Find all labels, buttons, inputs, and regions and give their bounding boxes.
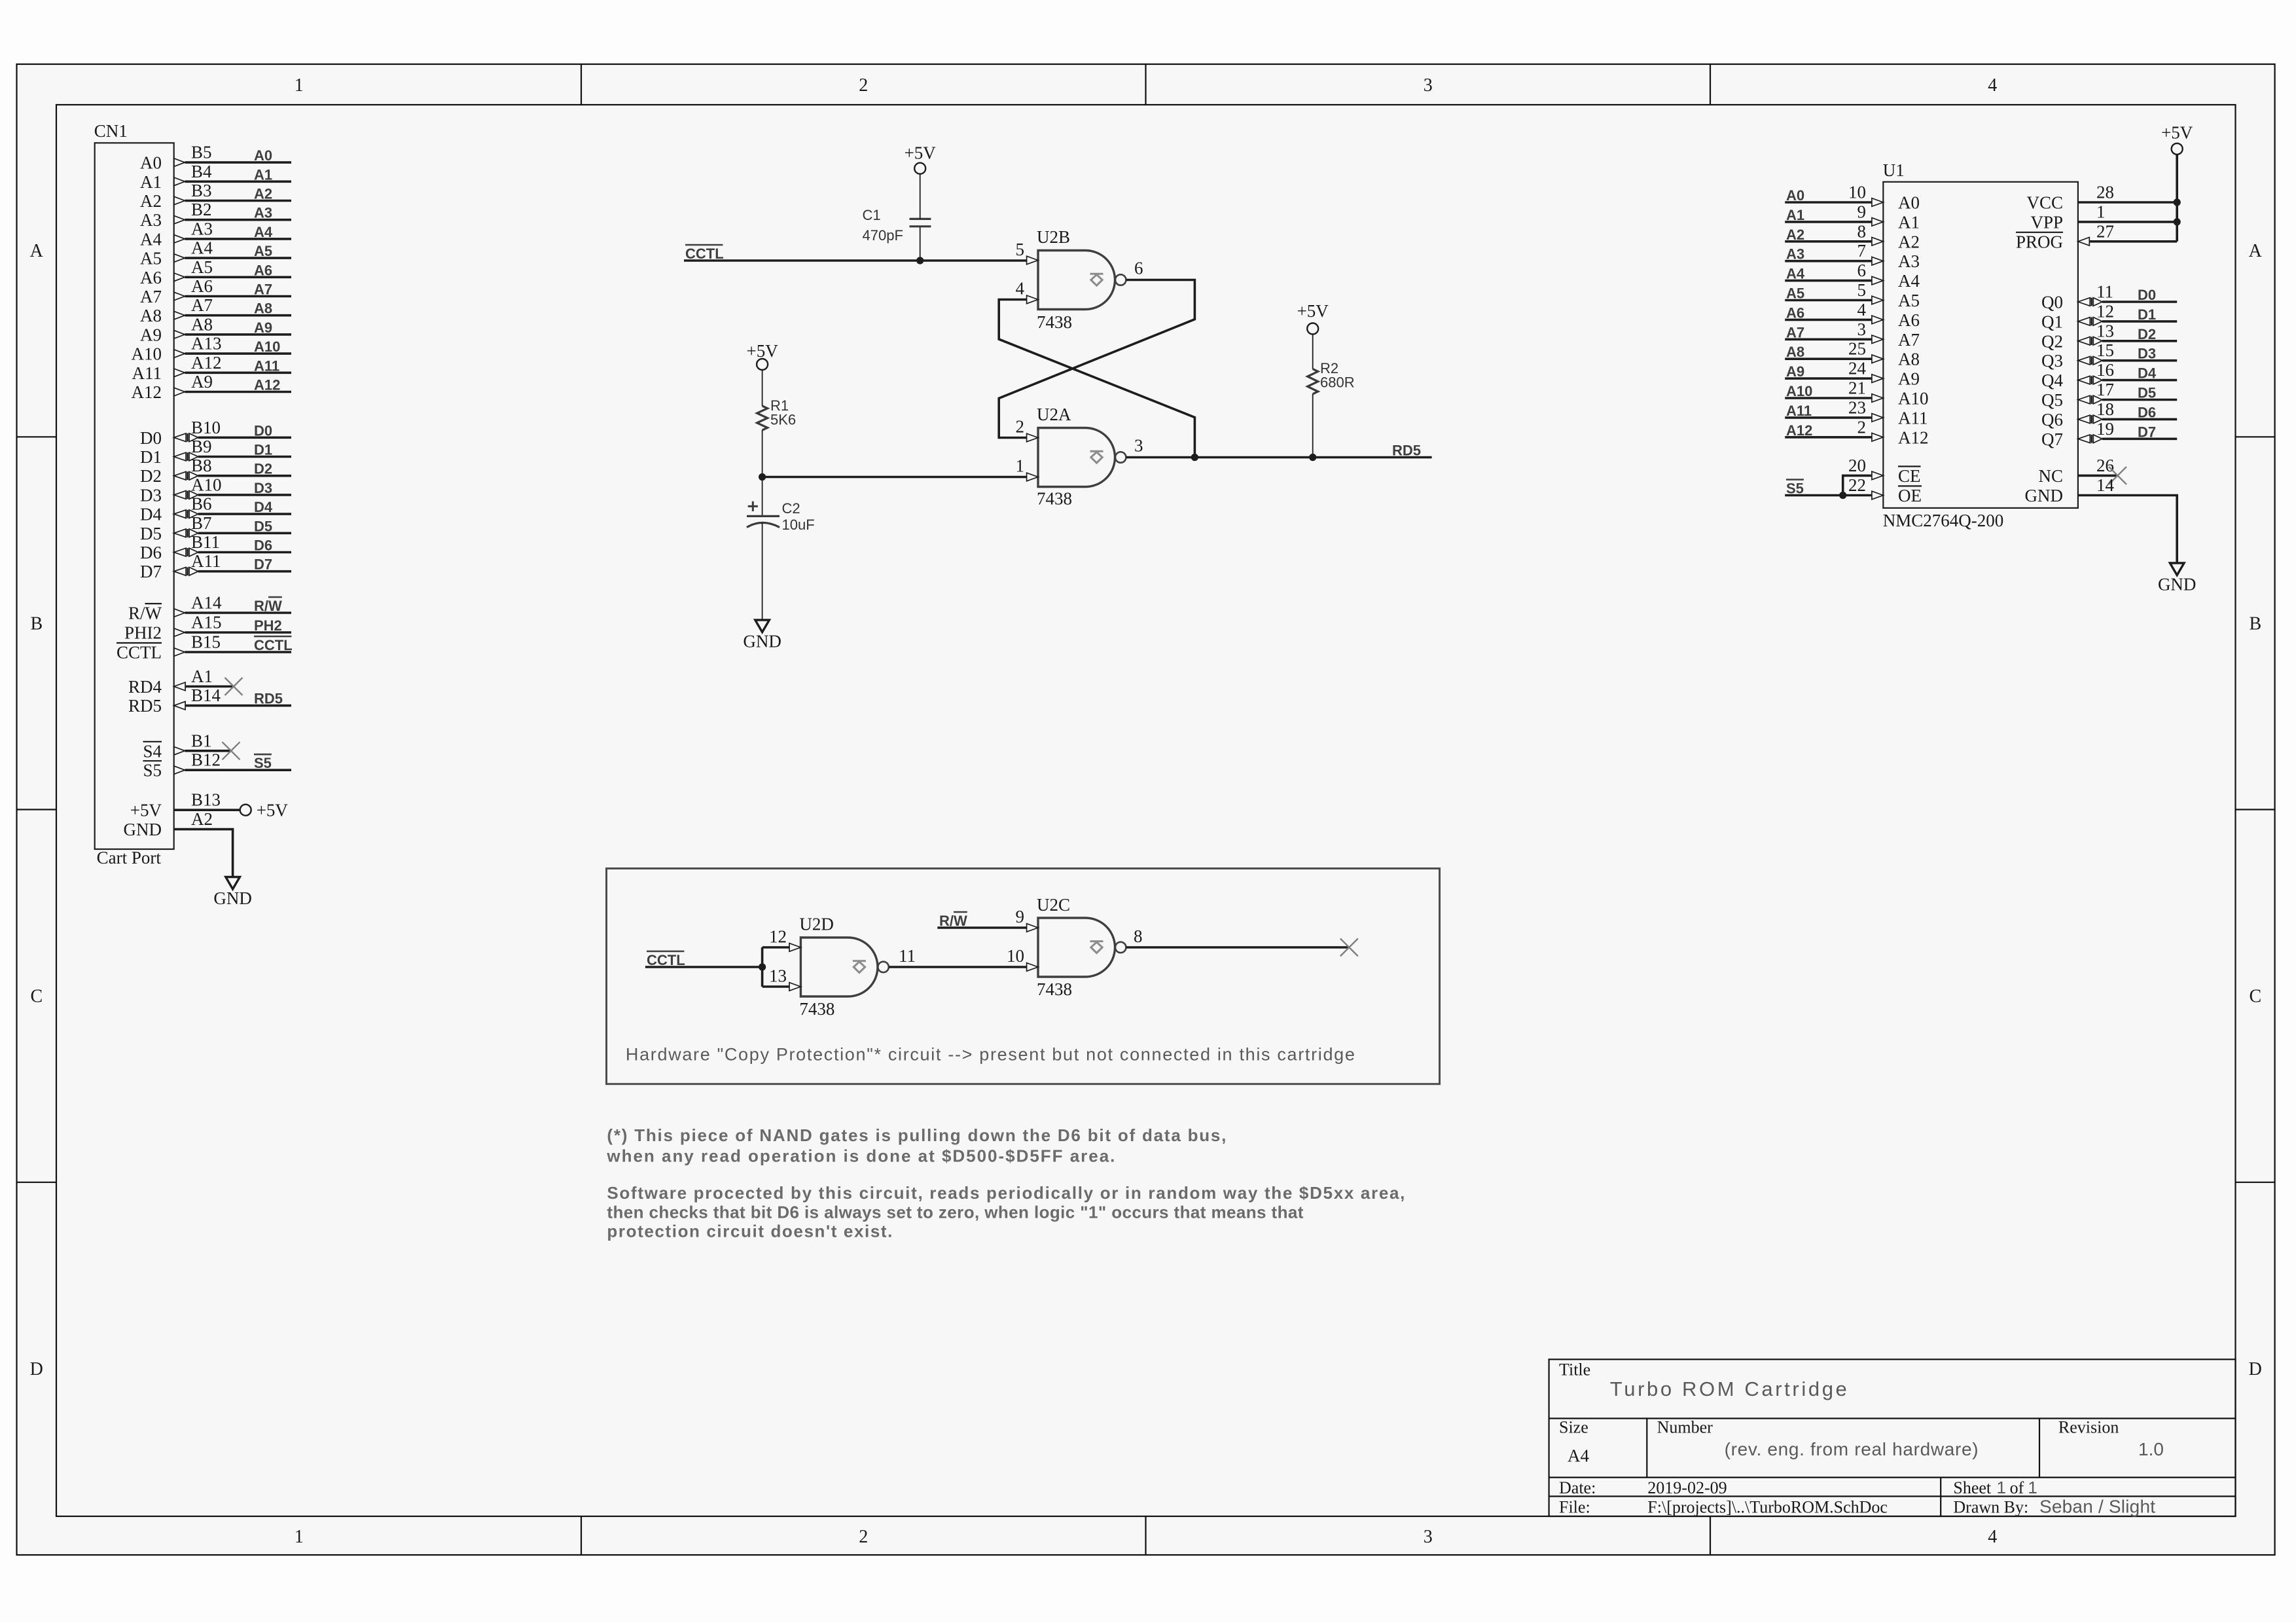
- net label R/W (copy protection): [939, 912, 967, 929]
- svg-text:VCC: VCC: [2026, 193, 2063, 213]
- U1 pin A9 (24): [1785, 359, 1920, 389]
- svg-text:4: 4: [1857, 300, 1867, 319]
- wire: [185, 611, 291, 614]
- svg-text:B10: B10: [191, 418, 221, 437]
- svg-text:NC: NC: [2038, 466, 2063, 486]
- svg-text:D4: D4: [2138, 365, 2157, 382]
- svg-text:D7: D7: [2138, 424, 2156, 440]
- svg-text:A1: A1: [1898, 212, 1920, 232]
- svg-text:D2: D2: [2138, 326, 2156, 342]
- svg-text:A5: A5: [1898, 291, 1920, 310]
- svg-text:28: 28: [2096, 183, 2114, 202]
- svg-text:D0: D0: [2138, 287, 2156, 303]
- svg-text:A1: A1: [254, 166, 272, 183]
- svg-text:2: 2: [859, 1527, 868, 1547]
- svg-text:B13: B13: [191, 790, 221, 810]
- svg-text:D: D: [2249, 1359, 2262, 1379]
- wire: [2102, 418, 2177, 421]
- CN1 pin A1 (pad B4): [140, 162, 291, 192]
- svg-text:A: A: [30, 241, 44, 261]
- svg-text:1.0: 1.0: [2138, 1439, 2164, 1459]
- svg-text:B15: B15: [191, 632, 221, 652]
- CN1 pin A7 (pad A6): [140, 276, 291, 306]
- svg-text:7438: 7438: [1037, 489, 1072, 509]
- svg-text:8: 8: [1134, 926, 1143, 946]
- svg-text:8: 8: [1857, 221, 1867, 241]
- svg-text:14: 14: [2096, 475, 2115, 495]
- CN1 pin +5V (pad B13): [130, 790, 289, 820]
- svg-text:A4: A4: [254, 224, 273, 240]
- svg-text:RD5: RD5: [254, 691, 283, 707]
- svg-text:680R: 680R: [1320, 374, 1355, 391]
- wire: [198, 456, 291, 458]
- wire: [1785, 221, 1872, 223]
- svg-text:23: 23: [1848, 397, 1866, 417]
- svg-text:+5V: +5V: [1297, 301, 1329, 321]
- svg-text:CCTL: CCTL: [254, 637, 293, 653]
- svg-text:(rev. eng. from real hardware): (rev. eng. from real hardware): [1725, 1439, 1979, 1459]
- svg-text:D6: D6: [254, 538, 272, 554]
- wire: [1785, 436, 1872, 439]
- wire: [198, 436, 291, 439]
- wire: [185, 238, 291, 240]
- wire: [185, 219, 291, 221]
- svg-text:A10: A10: [1898, 389, 1929, 409]
- svg-text:7438: 7438: [799, 999, 834, 1019]
- svg-text:7438: 7438: [1037, 979, 1072, 999]
- junction S5/CE: [1839, 492, 1846, 499]
- connector CN1 (Cart Port): [94, 121, 174, 867]
- svg-text:A6: A6: [1898, 310, 1920, 330]
- svg-text:A7: A7: [1898, 330, 1920, 350]
- svg-text:B: B: [2249, 613, 2261, 634]
- svg-text:22: 22: [1848, 475, 1866, 495]
- resistor R1 5K6: [757, 370, 797, 477]
- wire: [174, 830, 233, 877]
- svg-text:protection circuit doesn't exi: protection circuit doesn't exist.: [607, 1222, 892, 1241]
- svg-text:1: 1: [2096, 202, 2106, 221]
- svg-text:5K6: 5K6: [770, 412, 796, 428]
- svg-text:16: 16: [2096, 360, 2114, 380]
- CN1 pin R/W (pad A14): [128, 593, 291, 623]
- svg-text:B6: B6: [191, 494, 212, 514]
- op-amp U2C (NAND 7438): [1007, 895, 1143, 999]
- svg-text:A7: A7: [254, 282, 272, 298]
- CN1 pin RD5 (pad B14): [128, 685, 291, 716]
- svg-text:A8: A8: [254, 301, 272, 317]
- svg-text:B4: B4: [191, 162, 212, 181]
- svg-text:A6: A6: [191, 276, 213, 296]
- svg-text:D5: D5: [2138, 385, 2156, 401]
- svg-text:9: 9: [1857, 202, 1867, 221]
- svg-text:U2D: U2D: [799, 914, 834, 934]
- svg-text:D3: D3: [2138, 346, 2156, 362]
- svg-text:A8: A8: [1898, 350, 1920, 369]
- wire: [198, 475, 291, 477]
- wire: [185, 180, 291, 183]
- svg-text:File:: File:: [1559, 1498, 1590, 1517]
- svg-text:Q1: Q1: [2041, 312, 2063, 331]
- svg-text:17: 17: [2096, 380, 2114, 399]
- svg-text:2: 2: [1016, 417, 1025, 437]
- svg-text:Q4: Q4: [2041, 371, 2063, 390]
- svg-text:D6: D6: [140, 543, 162, 562]
- svg-text:A5: A5: [140, 249, 162, 268]
- wire U2B.4 cross to U2A.3 net: [999, 300, 1194, 458]
- CN1 pin A9 (pad A8): [140, 314, 291, 344]
- wire: [185, 333, 291, 336]
- wire U2C.8 no-connect: [1126, 946, 1350, 949]
- wire: [185, 685, 234, 688]
- svg-text:5: 5: [1016, 240, 1025, 259]
- wire: [185, 391, 291, 393]
- wire: [1785, 357, 1872, 360]
- power port +5V: [240, 805, 251, 816]
- CN1 pin A0 (pad B5): [140, 143, 291, 173]
- svg-text:then checks that bit D6 is alw: then checks that bit D6 is always set to…: [607, 1202, 1303, 1222]
- wire: [198, 494, 291, 496]
- svg-text:4: 4: [1016, 279, 1025, 299]
- ground symbol: [226, 877, 240, 890]
- svg-text:F:\[projects]\..\TurboROM.SchD: F:\[projects]\..\TurboROM.SchDoc: [1647, 1498, 1888, 1517]
- svg-text:A3: A3: [140, 210, 162, 230]
- wire: [1785, 201, 1872, 204]
- pin 4 arrow: [1027, 295, 1038, 304]
- svg-text:+5V: +5V: [2161, 123, 2193, 143]
- U1 pin Q3 (15): [2041, 340, 2177, 371]
- CN1 pin D5 (pad B7): [140, 513, 291, 543]
- CN1 pin A4 (pad A3): [140, 219, 291, 249]
- junction C1/CCTL: [916, 257, 924, 264]
- junction VPP: [2174, 218, 2181, 225]
- svg-text:4: 4: [1988, 1527, 1997, 1547]
- svg-text:B12: B12: [191, 750, 221, 770]
- svg-text:1: 1: [1016, 456, 1025, 476]
- power port +5V (R2): [1297, 301, 1329, 335]
- U1 pin A0 (10): [1785, 183, 1920, 213]
- svg-text:C: C: [2249, 987, 2261, 1007]
- svg-text:Hardware "Copy Protection"* ci: Hardware "Copy Protection"* circuit --> …: [626, 1044, 1355, 1064]
- wire: [2102, 340, 2177, 342]
- wire: [185, 371, 291, 374]
- svg-text:24: 24: [1848, 359, 1867, 378]
- CN1 pin PHI2 (pad A15): [124, 613, 291, 643]
- U1 pin A6 (4): [1785, 300, 1920, 330]
- wire: [1785, 260, 1872, 263]
- svg-text:Q3: Q3: [2041, 351, 2063, 371]
- svg-text:RD5: RD5: [128, 696, 162, 716]
- wire: [1785, 397, 1872, 399]
- svg-text:9: 9: [1016, 907, 1025, 926]
- svg-text:B2: B2: [191, 200, 212, 219]
- power port +5V (U1): [2161, 123, 2193, 155]
- svg-text:D1: D1: [2138, 306, 2156, 323]
- wire: [2102, 437, 2177, 440]
- wire: [185, 200, 291, 202]
- svg-text:B14: B14: [191, 685, 221, 705]
- svg-text:A7: A7: [140, 287, 162, 306]
- svg-text:Seban / Slight: Seban / Slight: [2039, 1497, 2155, 1517]
- net label CCTL (to U2B pin 5): [685, 245, 724, 262]
- svg-text:U1: U1: [1883, 160, 1905, 180]
- svg-text:1: 1: [1997, 1478, 2006, 1497]
- svg-text:20: 20: [1848, 456, 1866, 475]
- U1 pin A12 (2): [1785, 417, 1928, 447]
- wire: [1785, 280, 1872, 282]
- svg-text:5: 5: [1857, 280, 1867, 300]
- svg-text:Cart Port: Cart Port: [97, 848, 162, 867]
- capacitor C2 10uF (polarized): [747, 477, 815, 621]
- U1 pin GND (14): [2025, 475, 2197, 594]
- svg-text:A11: A11: [254, 357, 279, 374]
- svg-text:D1: D1: [254, 442, 272, 458]
- CN1 pin A10 (pad A13): [132, 334, 292, 364]
- U1 pin A1 (9): [1785, 202, 1920, 232]
- svg-text:Size: Size: [1559, 1417, 1588, 1436]
- svg-text:PHI2: PHI2: [124, 623, 162, 643]
- resistor R2 680R: [1308, 335, 1355, 458]
- wire CCTL to U2D inputs: [645, 966, 762, 968]
- svg-text:PROG: PROG: [2016, 232, 2063, 251]
- U1 pin Q7 (19): [2041, 419, 2177, 449]
- svg-text:A: A: [2249, 241, 2263, 261]
- wire: [185, 750, 231, 752]
- CN1 pin RD4 (pad A1) no-connect: [128, 666, 234, 697]
- svg-text:A3: A3: [191, 219, 213, 238]
- svg-text:A14: A14: [191, 593, 222, 613]
- svg-text:3: 3: [1857, 319, 1867, 339]
- CN1 pin A12 (pad A9): [132, 372, 292, 402]
- ground symbol (C2): [755, 620, 770, 632]
- wire: [2102, 379, 2177, 382]
- svg-text:+5V: +5V: [257, 801, 289, 820]
- svg-text:A4: A4: [191, 238, 213, 258]
- CN1 pin A6 (pad A5): [140, 257, 291, 287]
- wire: [185, 295, 291, 298]
- wire U2A.3 output to RD5: [1126, 456, 1432, 459]
- CN1 pin A5 (pad A4): [140, 238, 291, 268]
- svg-text:A0: A0: [1898, 193, 1920, 213]
- wire U2D.11 to U2C.10: [889, 966, 1027, 968]
- svg-text:A9: A9: [254, 319, 272, 336]
- svg-text:U2B: U2B: [1037, 227, 1070, 247]
- svg-text:13: 13: [2096, 321, 2114, 340]
- svg-text:S5: S5: [254, 755, 272, 771]
- CN1 pin A2 (pad B3): [140, 181, 291, 211]
- U1 pin A4 (6): [1785, 261, 1920, 291]
- svg-text:D2: D2: [140, 466, 162, 486]
- plus sign: [748, 505, 758, 507]
- capacitor C1 470pF: [863, 174, 931, 261]
- svg-text:D3: D3: [254, 480, 272, 496]
- U1 pin VCC (28): [2026, 183, 2177, 213]
- svg-text:when any read operation is don: when any read operation is done at $D500…: [606, 1146, 1115, 1165]
- svg-text:12: 12: [769, 927, 787, 947]
- wire: [2102, 320, 2177, 323]
- svg-text:11: 11: [899, 946, 916, 966]
- svg-text:CE: CE: [1898, 466, 1921, 486]
- svg-text:Q0: Q0: [2041, 293, 2063, 312]
- svg-text:C: C: [30, 987, 43, 1007]
- svg-text:A2: A2: [191, 809, 213, 829]
- U1 pin Q6 (18): [2041, 399, 2177, 429]
- svg-text:D3: D3: [140, 485, 162, 505]
- svg-text:D0: D0: [140, 428, 162, 448]
- svg-text:6: 6: [1857, 261, 1867, 280]
- U1 pin PROG (27): [2016, 221, 2177, 251]
- pin 5 arrow: [1027, 256, 1038, 264]
- CN1 pin D1 (pad B9): [140, 437, 291, 467]
- svg-text:B11: B11: [191, 532, 220, 552]
- svg-text:A9: A9: [140, 325, 162, 344]
- svg-text:A12: A12: [132, 382, 162, 402]
- junction CCTL/U2D: [759, 963, 766, 970]
- svg-text:S5: S5: [143, 761, 162, 780]
- U1 pin OE (22) / net S5: [1785, 475, 1922, 505]
- svg-text:18: 18: [2096, 399, 2114, 419]
- svg-text:7438: 7438: [1037, 312, 1072, 332]
- svg-text:10: 10: [1007, 946, 1024, 966]
- svg-text:GND: GND: [2025, 486, 2064, 505]
- svg-text:A2: A2: [140, 191, 162, 211]
- U1 pin A2 (8): [1785, 221, 1920, 251]
- svg-text:A8: A8: [191, 314, 213, 334]
- svg-text:19: 19: [2096, 419, 2114, 439]
- CN1 pin GND (pad A2): [124, 809, 252, 908]
- svg-text:GND: GND: [2158, 575, 2197, 594]
- svg-text:R/W: R/W: [128, 604, 162, 623]
- CN1 pin CCTL (pad B15): [117, 632, 293, 663]
- svg-text:RD5: RD5: [1392, 443, 1421, 459]
- svg-text:2: 2: [1857, 417, 1867, 437]
- svg-text:A1: A1: [140, 172, 162, 192]
- wire: [2102, 399, 2177, 401]
- wire: [198, 551, 291, 554]
- svg-text:+5V: +5V: [130, 801, 162, 820]
- svg-text:Sheet: Sheet: [1953, 1478, 1992, 1497]
- wire: [198, 570, 291, 573]
- svg-text:S4: S4: [143, 741, 162, 761]
- power port +5V (R1): [746, 341, 778, 370]
- U1 pin Q5 (17): [2041, 380, 2177, 410]
- svg-text:A12: A12: [191, 353, 222, 373]
- svg-text:Q2: Q2: [2041, 331, 2063, 351]
- svg-text:PH2: PH2: [254, 617, 282, 634]
- U1 pin Q1 (12): [2041, 301, 2177, 331]
- svg-text:A6: A6: [140, 268, 162, 287]
- svg-text:21: 21: [1848, 378, 1866, 398]
- svg-text:D7: D7: [140, 562, 162, 581]
- U1 pin VPP (1): [2030, 202, 2177, 232]
- svg-text:A1: A1: [191, 666, 213, 686]
- svg-text:A12: A12: [1898, 428, 1929, 447]
- svg-text:of: of: [2010, 1478, 2024, 1497]
- svg-text:D2: D2: [254, 461, 272, 477]
- svg-text:D5: D5: [140, 524, 162, 543]
- wire: [2102, 301, 2177, 303]
- wire +5V rail to VCC/VPP/PROG: [2176, 155, 2178, 242]
- svg-text:A10: A10: [254, 338, 280, 355]
- svg-text:B7: B7: [191, 513, 212, 533]
- svg-text:6: 6: [1134, 259, 1143, 278]
- svg-text:1: 1: [295, 1527, 304, 1547]
- CN1 pin D2 (pad B8): [140, 456, 291, 486]
- svg-text:D6: D6: [2138, 404, 2156, 420]
- svg-text:Software procected by this cir: Software procected by this circuit, read…: [607, 1183, 1405, 1203]
- svg-text:RD4: RD4: [128, 677, 162, 697]
- svg-text:A10: A10: [132, 344, 162, 364]
- svg-text:OE: OE: [1898, 486, 1922, 505]
- junction R2/RD5: [1309, 454, 1316, 461]
- copy protection circuit box: [607, 869, 1440, 1084]
- svg-text:470pF: 470pF: [863, 227, 903, 244]
- svg-text:A11: A11: [132, 363, 162, 383]
- svg-text:VPP: VPP: [2030, 212, 2063, 232]
- wire: [185, 352, 291, 355]
- svg-text:CCTL: CCTL: [117, 643, 162, 663]
- svg-text:A13: A13: [191, 334, 222, 354]
- wire: [1785, 319, 1872, 321]
- svg-text:4: 4: [1988, 75, 1997, 96]
- svg-text:15: 15: [2096, 340, 2114, 360]
- wire: [1785, 240, 1872, 243]
- op-amp U2B (NAND 7438): [1016, 227, 1143, 332]
- CN1 pin D3 (pad A10): [140, 475, 291, 505]
- junction crossover/RD5: [1191, 454, 1198, 461]
- svg-text:Q5: Q5: [2041, 390, 2063, 410]
- U1 pin Q2 (13): [2041, 321, 2177, 351]
- svg-text:C2: C2: [782, 500, 800, 517]
- svg-text:CN1: CN1: [94, 121, 128, 141]
- net label CCTL (copy protection): [647, 951, 685, 968]
- svg-text:A0: A0: [254, 147, 272, 164]
- wire: [198, 513, 291, 515]
- U1 pin A7 (3): [1785, 319, 1920, 350]
- CN1 pin D6 (pad B11): [140, 532, 291, 562]
- svg-text:A4: A4: [1898, 271, 1920, 291]
- wire: [185, 161, 291, 164]
- IC U1 NMC2764Q-200 EPROM: [1883, 160, 2078, 530]
- CN1 pin A11 (pad A12): [132, 353, 292, 383]
- svg-text:11: 11: [2096, 282, 2113, 302]
- svg-text:A3: A3: [1898, 251, 1920, 271]
- svg-text:+5V: +5V: [905, 143, 937, 163]
- wire: [185, 276, 291, 278]
- wire: [185, 257, 291, 259]
- svg-text:1: 1: [2028, 1478, 2037, 1497]
- svg-text:A9: A9: [191, 372, 213, 392]
- U1 pin A8 (25): [1785, 339, 1920, 369]
- CN1 pin S5 (pad B12): [143, 750, 291, 780]
- svg-text:NMC2764Q-200: NMC2764Q-200: [1883, 511, 2004, 530]
- wire: [185, 704, 291, 707]
- svg-text:GND: GND: [213, 888, 252, 908]
- wire R/W to U2C pin 9: [937, 926, 1026, 929]
- svg-text:Revision: Revision: [2058, 1417, 2119, 1436]
- svg-text:(*) This piece of NAND gates i: (*) This piece of NAND gates is pulling …: [607, 1125, 1226, 1145]
- svg-text:26: 26: [2096, 456, 2114, 475]
- CN1 pin D0 (pad B10): [140, 418, 291, 448]
- svg-text:Q7: Q7: [2041, 429, 2063, 449]
- title block: [1549, 1359, 2236, 1516]
- svg-text:A4: A4: [1568, 1446, 1589, 1466]
- svg-text:B3: B3: [191, 181, 212, 200]
- svg-text:D5: D5: [254, 518, 272, 534]
- wire: [185, 769, 291, 771]
- wire: [1785, 338, 1872, 340]
- svg-text:10uF: 10uF: [782, 517, 815, 533]
- U1 pin A10 (21): [1785, 378, 1928, 409]
